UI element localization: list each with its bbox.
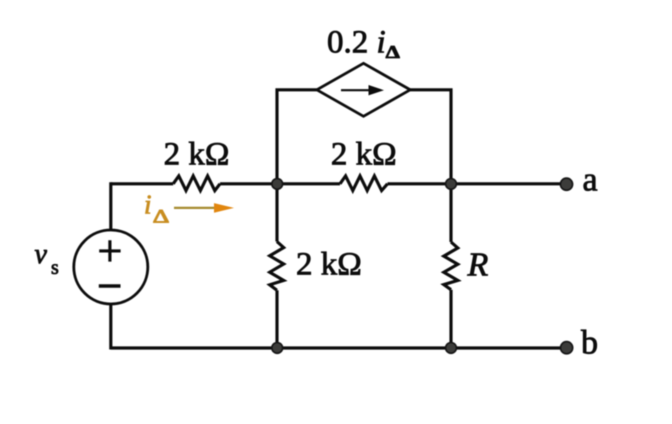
svg-text:b: b — [581, 325, 598, 362]
svg-text:2 kΩ: 2 kΩ — [164, 137, 230, 173]
svg-text:2 kΩ: 2 kΩ — [296, 247, 362, 283]
svg-text:Δ: Δ — [153, 206, 170, 227]
svg-text:v: v — [35, 239, 48, 270]
svg-text:2 kΩ: 2 kΩ — [331, 137, 397, 173]
svg-text:a: a — [583, 162, 598, 199]
svg-text:Δ: Δ — [386, 43, 401, 62]
svg-text:R: R — [467, 246, 489, 283]
svg-text:0.2 i: 0.2 i — [327, 25, 386, 61]
svg-text:s: s — [51, 257, 59, 279]
svg-text:i: i — [144, 190, 152, 220]
